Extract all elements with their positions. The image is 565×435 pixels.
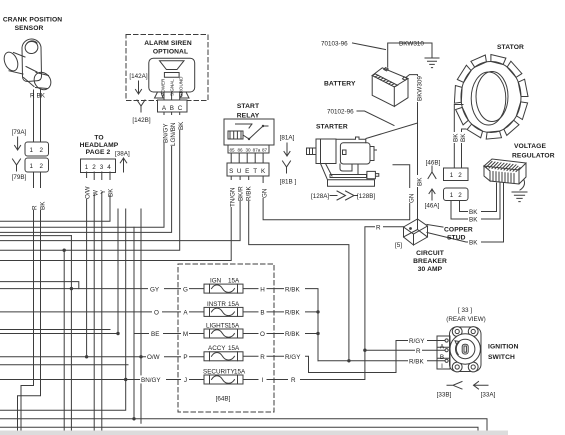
svg-text:R: R [291,377,296,384]
svg-text:2: 2 [40,147,44,154]
svg-text:O: O [154,310,159,317]
svg-text:BKW309: BKW309 [417,76,424,101]
wire: fuse H row to R/BK bus [243,289,318,361]
wire: copper stud BK to regulator [427,183,504,242]
connector 79A [25,142,49,156]
svg-text:H: H [260,286,265,293]
wire: pointer 70103-96 [353,43,386,50]
label BKW309 [414,76,422,102]
arrow 33A left [474,382,489,390]
wire: bottom bus with frame corner right [0,419,487,435]
svg-text:BKW310: BKW310 [399,41,424,48]
svg-text:1: 1 [85,164,89,171]
wire: V126 feed from above to bottom corner [0,209,126,410]
labels O/W W Y BK headlamp wires [82,178,113,199]
speaker: siren body [149,58,195,92]
svg-text:BREAKER: BREAKER [413,258,447,265]
svg-text:GN: GN [408,193,415,203]
alarm siren dashed box [126,35,208,101]
connector 46A [444,188,469,201]
svg-text:TO: TO [94,135,103,142]
wire: diagonal battery to starter terminal [366,123,418,139]
wire: stub line below O/W row [0,364,128,366]
wire: fuse R row R/GY to ignition pin A [243,341,445,373]
svg-text:BN/GY: BN/GY [141,377,161,384]
svg-text:R: R [376,225,381,232]
fuse row labels M O LIGHTS [149,329,305,337]
connector ABC siren [158,100,188,112]
svg-text:TN/GN: TN/GN [230,187,237,207]
svg-text:OPTIONAL: OPTIONAL [153,49,188,56]
wire: node V71 vertical to bottom [70,236,72,435]
arrow 33B [447,382,462,390]
svg-text:COPPER: COPPER [444,227,473,234]
svg-text:BK: BK [469,240,478,247]
svg-text:BK: BK [469,209,478,216]
fuse row labels G H IGN [148,285,305,293]
wire: relay pin stubs [231,153,263,163]
svg-text:SIGNAL: SIGNAL [170,79,175,96]
wire: left edge jog into GY fuse row [0,282,79,289]
wire: line into node V71 [0,235,71,237]
svg-text:1: 1 [30,147,34,154]
wire: inner frame line [0,427,478,435]
start relay box U-relay [224,119,274,145]
node: R tap to ignition [363,349,366,352]
svg-text:BK: BK [453,133,460,142]
label GN vertical [406,188,414,203]
node: headlamp O/W joins O/W row [85,355,88,358]
ignition switch icon [450,327,482,372]
fuse F3 LIGHTS 15A [204,329,243,338]
svg-text:R: R [32,205,39,210]
svg-text:[128A]: [128A] [311,193,329,200]
svg-text:VOLTAGE: VOLTAGE [514,143,546,150]
svg-text:15A: 15A [228,345,240,352]
wire: copper stud pointer [427,225,443,228]
node: V126 on BN/GY row [124,378,127,381]
battery icon [372,68,408,107]
svg-text:[5]: [5] [395,242,402,249]
svg-text:IGNITION: IGNITION [488,344,519,351]
svg-text:T: T [253,168,257,175]
fuse F4 ACCY 15A [204,352,243,361]
svg-text:2: 2 [40,163,44,170]
wire: battery positive BKW309 down to breaker [406,75,418,219]
fuse row labels A B INSTR [152,308,305,316]
ground: battery ground symbol [425,58,439,68]
svg-text:I: I [262,377,264,384]
svg-text:BK: BK [469,217,478,224]
svg-text:SWITCH: SWITCH [488,354,515,361]
svg-text:(REAR VIEW): (REAR VIEW) [446,316,486,323]
svg-text:ACCY: ACCY [208,345,226,352]
svg-text:15A: 15A [228,322,240,329]
svg-text:70103-96: 70103-96 [321,41,348,48]
node: junction V71 on GY row [70,287,73,290]
svg-text:[64B]: [64B] [216,396,231,403]
arrow 46A up [429,189,435,200]
svg-text:R: R [260,354,265,361]
wire: relay TN/GN net to left edge [0,176,231,261]
crank position sensor CPS [2,39,55,142]
svg-text:R/BK: R/BK [409,359,424,366]
svg-text:S: S [229,168,233,175]
labels BK BK BK regulator [468,208,481,246]
svg-text:[46A]: [46A] [425,203,440,210]
svg-text:85: 85 [229,148,235,153]
svg-text:3: 3 [100,164,104,171]
connector SUETK [227,163,269,176]
arrow 46B branch [428,166,436,179]
svg-text:O/W: O/W [147,354,160,361]
wire: O fuse row [0,311,204,313]
wire: siren LGN/BN net to left edge [0,112,172,232]
wire: V64 vertical to bottom [63,250,65,435]
svg-text:G: G [183,286,188,293]
svg-text:1: 1 [30,163,34,170]
wire: R/BK bus to ignition pin I [318,360,445,362]
svg-text:BK: BK [460,133,467,142]
svg-text:P: P [183,354,187,361]
node: V141 on O/W row [139,355,142,358]
fuse F2 INSTR 15A [204,307,243,316]
wire: R to ignition pin B [365,349,445,351]
svg-text:1: 1 [450,172,454,179]
svg-text:2: 2 [92,164,96,171]
starter motor icon [307,137,379,186]
labels BN/GY LGN/BN BK siren wires [160,115,184,146]
wire: headlamp W vertical full height [93,172,95,435]
relay coil [228,131,243,139]
fuse block dashed box 64B [178,264,274,412]
svg-text:[142B]: [142B] [132,117,150,124]
svg-text:[79B]: [79B] [12,174,27,181]
wire: stub line above BE row [0,329,110,331]
arrow 142B Y [137,100,145,112]
wire: relay R/BK net to fuse R/BK bus [249,176,349,361]
svg-text:GN: GN [262,188,269,198]
svg-text:M: M [183,331,188,338]
svg-text:70102-96: 70102-96 [327,109,354,116]
svg-text:B: B [260,310,264,317]
svg-text:[79A]: [79A] [12,129,27,136]
wire: headlamp Y vertical full height [101,172,103,435]
svg-text:R/GY: R/GY [285,354,301,361]
svg-text:R: R [30,93,35,100]
svg-text:BE: BE [151,331,159,338]
wire: BE fuse row [0,333,204,335]
wire: GY fuse row [0,288,204,290]
svg-text:BK: BK [108,188,115,197]
voltage regulator icon [484,159,526,190]
svg-text:START: START [237,103,260,110]
arrow 38A up [120,158,126,172]
svg-text:LGN/BN: LGN/BN [170,122,177,146]
svg-text:4: 4 [107,164,111,171]
wire: 46A pin2 to regulator [460,183,497,212]
svg-text:I: I [441,363,443,370]
svg-text:BATTERY: BATTERY [324,81,356,88]
svg-text:RELAY: RELAY [237,113,260,120]
arrow 128A chevrons [330,191,357,200]
labels TN/GN BK/R R/BK GN relay wires [227,180,267,207]
svg-text:[81B ]: [81B ] [280,179,297,186]
ground: regulator ground symbol [512,192,527,202]
svg-text:BK: BK [40,201,47,210]
connector 79B [25,158,49,172]
wire: relay BK/R net to left edge [0,176,240,241]
connector 46B [444,168,469,181]
svg-text:[ 33 ]: [ 33 ] [458,307,472,314]
stator icon [454,55,528,140]
label R BK vertical crank [30,188,46,210]
wire: battery negative to ground BKW310 [388,43,432,67]
svg-text:HEADLAMP: HEADLAMP [80,142,119,149]
fuse F5 SECURITY 15A [204,375,243,384]
node: R/BK bus row2 [316,310,319,313]
svg-text:15A: 15A [228,278,240,285]
svg-text:BK: BK [178,121,185,130]
wire: siren BK net to left edge [0,112,180,250]
svg-text:2: 2 [458,172,462,179]
wire: left edge elbow down V134 [0,227,134,418]
svg-text:[142A]: [142A] [129,73,147,80]
svg-text:[46B]: [46B] [426,160,441,167]
svg-text:[38A]: [38A] [115,151,130,158]
node: junction V64 on BK net [62,249,65,252]
arrow 81B Y [283,161,291,173]
relay contacts [236,124,269,139]
arrow 79A down [15,137,21,150]
svg-text:15A: 15A [228,301,240,308]
wire: crank R lower corner [21,172,34,435]
svg-text:REGULATOR: REGULATOR [512,153,555,160]
svg-text:POWER: POWER [161,78,166,96]
svg-text:87a: 87a [253,148,261,153]
svg-text:87: 87 [262,148,268,153]
node: R/BK bus row3 [316,332,319,335]
arrow 142A down [136,81,142,94]
svg-text:B: B [170,105,174,112]
svg-text:[128B]: [128B] [357,193,375,200]
labels R/GY R R/BK ignition [408,337,427,365]
svg-text:W: W [93,190,100,196]
wire: siren BN/GY net to left edge [134,112,164,227]
svg-text:SENSOR: SENSOR [15,25,44,32]
wire: feed vertical V118 [117,209,119,334]
wire: stator lead 2 [462,129,467,168]
svg-text:BK: BK [416,177,423,186]
label R breaker [375,223,383,230]
svg-text:IGN: IGN [210,278,222,285]
wire: stator lead 1 [454,105,463,169]
fuse row labels P R ACCY [146,352,305,360]
labels BK BK stator [450,132,466,143]
svg-text:E: E [245,168,249,175]
svg-text:BN/GY: BN/GY [163,123,170,143]
svg-text:30: 30 [245,148,251,153]
svg-text:2: 2 [458,192,462,199]
svg-text:O: O [260,331,265,338]
svg-text:R/BK: R/BK [285,331,300,338]
svg-text:LIGHTS: LIGHTS [206,322,229,329]
node: junction on bottom bus [132,417,135,420]
svg-text:GROUND: GROUND [179,76,184,97]
fuse row labels J I SECURITY [140,375,300,383]
wire: headlamp O/W vertical [86,172,88,357]
fuse F1 IGN 15A [204,284,243,293]
wire: BN/GY fuse row [0,379,204,381]
svg-text:[81A]: [81A] [280,135,295,142]
svg-text:PAGE 2: PAGE 2 [86,149,111,156]
svg-text:R: R [416,348,421,355]
svg-text:CIRCUIT: CIRCUIT [416,250,445,257]
svg-text:[33B]: [33B] [437,392,452,399]
wire: headlamp BK net to left edge [0,172,110,221]
label BK vertical battery wire [414,175,422,187]
relay pins strip [228,145,269,153]
svg-text:BK/R: BK/R [238,186,245,201]
node: junction on BE row [116,332,119,335]
svg-text:86: 86 [237,148,243,153]
svg-text:C: C [178,105,183,112]
svg-text:GY: GY [150,286,160,293]
connector ignition ABI [437,336,450,369]
svg-text:STUD: STUD [447,235,466,242]
svg-text:STATOR: STATOR [497,44,524,51]
svg-text:R/GY: R/GY [409,338,425,345]
wire: O/W fuse row [0,356,204,358]
svg-text:B: B [440,354,444,361]
svg-text:O/W: O/W [85,186,92,199]
circuit breaker cube [404,219,428,245]
svg-text:SECURITY: SECURITY [203,368,236,375]
arrow 81A down [284,143,290,156]
svg-text:CRANK POSITION: CRANK POSITION [3,17,62,24]
svg-text:ALARM SIREN: ALARM SIREN [144,40,192,47]
arrow 79B Y [13,159,21,171]
svg-text:J: J [184,377,187,384]
svg-text:[33A]: [33A] [481,392,496,399]
svg-text:15A: 15A [234,368,246,375]
wire: relay GN net to starter [263,165,410,220]
svg-text:30 AMP: 30 AMP [418,266,443,273]
wire: pointer 70102-96 [357,111,394,126]
wire: 46A pin1 to regulator [451,183,500,219]
wire: fuse B row [243,311,318,313]
connector 38A headlamp [81,159,116,173]
svg-text:R/BK: R/BK [285,310,300,317]
speaker horn [160,61,185,78]
svg-text:INSTR: INSTR [207,301,226,308]
svg-text:BK: BK [37,93,46,100]
wire: breaker R to ignition/security [243,227,404,380]
grey scrollbar at bottom [0,431,508,435]
wire: feed vertical V141 [140,209,142,423]
svg-text:STARTER: STARTER [316,124,348,131]
svg-text:U: U [237,168,242,175]
wire: crank BK lower corner [18,172,41,435]
wire: siren pin stubs [164,92,180,100]
svg-text:R/BK: R/BK [285,286,300,293]
node: relay R/BK joins bus [347,359,350,362]
wire: fuse O row [243,333,318,335]
svg-text:1: 1 [450,192,454,199]
speaker feet [155,92,190,98]
svg-text:R/BK: R/BK [246,186,253,201]
